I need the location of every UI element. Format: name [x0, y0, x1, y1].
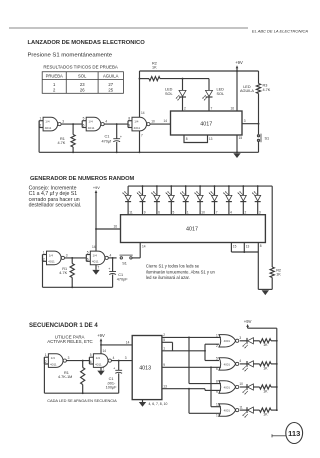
nor gate U7d — [219, 404, 236, 416]
right rail schematic3 — [276, 328, 278, 410]
svg-text:destellador secuencial.: destellador secuencial. — [29, 203, 82, 209]
svg-text:C1: C1 — [105, 134, 110, 138]
svg-text:16: 16 — [231, 107, 235, 111]
svg-text:100µF: 100µF — [106, 385, 118, 389]
wire U5a out to U5b — [67, 360, 90, 362]
wire U1a out to U1b — [61, 123, 82, 125]
wire 4017 pin15 down — [236, 135, 238, 152]
svg-text:6: 6 — [158, 211, 160, 215]
nor gate U7b — [219, 358, 236, 370]
svg-text:2: 2 — [245, 211, 247, 215]
svg-text:1/4: 1/4 — [49, 253, 54, 257]
wire 4017 pins 8-13 strap — [184, 135, 208, 143]
resistor 1K row3 — [260, 385, 272, 389]
resistor R2 — [140, 78, 150, 80]
wire U1c VSS pin7 to bottom rail — [139, 131, 141, 152]
svg-text:1/4: 1/4 — [134, 120, 139, 124]
svg-text:5: 5 — [90, 353, 92, 357]
svg-text:11: 11 — [239, 405, 243, 409]
svg-text:2: 2 — [43, 258, 45, 262]
svg-text:4001: 4001 — [224, 385, 231, 389]
svg-text:AGUILA: AGUILA — [240, 89, 254, 93]
svg-text:26: 26 — [80, 88, 85, 93]
nand gate U5b — [93, 354, 108, 368]
LED D10 — [257, 185, 259, 187]
svg-text:4011: 4011 — [95, 362, 102, 366]
svg-text:8: 8 — [128, 117, 130, 121]
svg-text:4.7K: 4.7K — [263, 88, 271, 92]
wire VDD drop to gate U1c pin14 — [139, 71, 141, 117]
svg-text:LANZADOR DE MONEDAS ELECTRONIC: LANZADOR DE MONEDAS ELECTRONICO — [28, 40, 146, 46]
wire 4013 pin13 run — [162, 388, 205, 390]
svg-text:SOL: SOL — [217, 92, 225, 96]
svg-text:5: 5 — [216, 357, 218, 361]
svg-text:8: 8 — [186, 137, 188, 141]
node S1 top junction — [258, 123, 260, 125]
svg-text:2: 2 — [45, 360, 47, 364]
wire to U7a in2 — [205, 343, 219, 345]
ground schematic2 right — [262, 290, 269, 295]
wire U4a out to U4b — [65, 257, 87, 259]
svg-text:4013: 4013 — [139, 366, 151, 372]
switch S1 schematic2 — [116, 257, 118, 259]
svg-text:27: 27 — [108, 82, 113, 87]
resistor R2 1K s2 — [270, 267, 274, 278]
svg-text:2: 2 — [40, 124, 42, 128]
svg-text:4011: 4011 — [134, 126, 141, 130]
svg-text:4.7K: 4.7K — [59, 271, 67, 275]
svg-text:4001: 4001 — [224, 339, 231, 343]
LED row3 — [246, 384, 248, 390]
svg-text:4.7K-1M: 4.7K-1M — [58, 375, 72, 379]
LED D6 — [199, 185, 201, 187]
svg-text:PRUEBA: PRUEBA — [46, 74, 63, 79]
wire to switch S1 — [258, 124, 260, 135]
wire LED to R row3 — [253, 386, 259, 388]
svg-text:4.7K: 4.7K — [58, 141, 66, 145]
LED row4 — [246, 407, 248, 413]
wire S1 to 4017 pin 14 s2 — [132, 257, 140, 259]
wire LED to R row2 — [253, 363, 259, 365]
svg-text:9: 9 — [144, 211, 146, 215]
LED SOL 2 — [206, 90, 213, 96]
wire 4013 pin5-pin6 step — [162, 341, 173, 343]
wire led rail to R2 s2 — [271, 186, 273, 267]
svg-text:5: 5 — [163, 338, 165, 342]
LED D3 — [156, 185, 158, 187]
svg-text:1: 1 — [40, 117, 42, 121]
wire gate out to LED row1 — [240, 340, 247, 342]
svg-text:1K: 1K — [263, 366, 268, 370]
svg-text:470pF: 470pF — [117, 278, 128, 282]
wire gate out to LED row3 — [240, 386, 247, 388]
wire R to rail row3 — [271, 386, 277, 388]
svg-text:4: 4 — [113, 356, 115, 360]
header rule — [9, 27, 248, 29]
wire R to rail row1 — [271, 340, 277, 342]
right supply run — [248, 327, 277, 329]
wire LED SOL 1 drop — [182, 78, 184, 80]
resistor 1K row1 — [260, 339, 272, 343]
svg-text:4: 4 — [110, 253, 112, 257]
wire +9V to 4017 pin16 — [236, 71, 238, 111]
bus V6 down to U7d in1 — [210, 367, 212, 406]
node R2 junction — [139, 78, 141, 80]
svg-text:15: 15 — [239, 136, 243, 140]
svg-text:4011: 4011 — [50, 362, 57, 366]
led rail schematic2 — [128, 185, 272, 187]
svg-text:14: 14 — [126, 340, 130, 344]
svg-text:2: 2 — [184, 107, 186, 111]
svg-text:113: 113 — [288, 429, 300, 438]
capacitor C1 .001-100uF — [118, 361, 120, 371]
wire R to rail row2 — [271, 363, 277, 365]
svg-text:10: 10 — [239, 382, 243, 386]
svg-text:4001: 4001 — [224, 362, 231, 366]
svg-text:SECUENCIADOR 1 DE 4: SECUENCIADOR 1 DE 4 — [29, 323, 98, 329]
svg-text:4: 4 — [105, 120, 107, 124]
table box — [42, 72, 123, 94]
svg-text:CADA LED SE APAGA EN SECUENCIA: CADA LED SE APAGA EN SECUENCIA — [47, 398, 117, 403]
wire 4017 pin8 down s2 — [257, 243, 259, 290]
svg-text:+: + — [113, 367, 115, 371]
bus V4 down to U7d in2 — [188, 389, 190, 414]
svg-text:+9V: +9V — [93, 186, 100, 190]
svg-text:4011: 4011 — [48, 260, 55, 264]
svg-text:13: 13 — [246, 245, 250, 249]
svg-text:2: 2 — [163, 333, 165, 337]
ic 4017 U3 — [121, 215, 266, 243]
svg-text:Presione S1 momentáneamente: Presione S1 momentáneamente — [28, 52, 113, 58]
svg-text:1: 1 — [43, 250, 45, 254]
ground under U5b — [97, 371, 104, 376]
svg-text:+9V: +9V — [244, 319, 252, 324]
wire U5b out to 4013 — [111, 360, 132, 362]
svg-text:3: 3 — [239, 336, 241, 340]
svg-text:1K: 1K — [263, 343, 268, 347]
svg-text:1K: 1K — [152, 66, 157, 70]
svg-text:4001: 4001 — [224, 409, 231, 413]
capacitor C1 470pF s2 — [112, 258, 114, 272]
svg-text:1: 1 — [216, 333, 218, 337]
node R1 tap s3 — [82, 360, 84, 362]
resistor 1K row2 — [260, 362, 272, 366]
capacitor C1 470uf — [116, 124, 118, 139]
svg-text:3: 3 — [62, 120, 64, 124]
svg-text:13: 13 — [209, 137, 213, 141]
wire U1c out to 4017 pin 14 — [150, 123, 171, 125]
svg-text:1/4: 1/4 — [51, 356, 56, 360]
ic 4013 U6 — [132, 336, 162, 400]
wire R to rail row4 — [271, 409, 277, 411]
svg-text:12: 12 — [216, 403, 220, 407]
nand gate U4a — [47, 251, 62, 265]
svg-text:1K: 1K — [263, 389, 268, 393]
svg-text:led se iluminará al azar.: led se iluminará al azar. — [146, 275, 190, 280]
LED D2 — [142, 185, 144, 187]
svg-text:AGUILA: AGUILA — [103, 74, 119, 79]
svg-text:S1: S1 — [122, 261, 127, 265]
svg-text:15: 15 — [233, 245, 237, 249]
wire 4017 pin3 to S1 node — [242, 123, 259, 125]
nand gate U5a — [48, 354, 63, 368]
svg-text:S1: S1 — [265, 136, 270, 140]
LED SOL 1 — [179, 90, 186, 96]
wire ground run s2 — [258, 288, 272, 290]
LED D4 — [170, 185, 172, 187]
svg-text:GENERADOR DE NUMEROS RANDOM: GENERADOR DE NUMEROS RANDOM — [30, 176, 135, 182]
node C1 tap s3 — [118, 360, 120, 362]
svg-text:7: 7 — [216, 211, 218, 215]
ic 4017 U2 — [171, 111, 243, 135]
svg-text:+9V: +9V — [235, 60, 243, 65]
svg-text:10: 10 — [201, 211, 205, 215]
svg-text:6: 6 — [87, 258, 89, 262]
svg-text:9: 9 — [128, 124, 130, 128]
svg-text:16: 16 — [114, 224, 118, 228]
svg-text:3: 3 — [66, 253, 68, 257]
bus V1 down to U7c in1 — [188, 337, 190, 383]
svg-text:1/4: 1/4 — [88, 120, 93, 124]
wire gate out to LED row2 — [240, 363, 247, 365]
LED D1 — [127, 186, 129, 195]
node C1 tap — [116, 123, 118, 125]
svg-text:SOL: SOL — [78, 74, 87, 79]
LED D8 — [228, 185, 230, 187]
svg-text:25: 25 — [108, 88, 113, 93]
footer pointer line — [272, 435, 286, 437]
resistor R1 4.7K s2 — [71, 258, 73, 264]
wire U1b out to U1c — [104, 123, 128, 125]
svg-text:1/4: 1/4 — [93, 253, 98, 257]
svg-text:7: 7 — [141, 134, 143, 138]
LED D5 — [185, 185, 187, 187]
wire U4a feedback — [42, 255, 44, 288]
svg-text:11: 11 — [129, 211, 133, 215]
svg-text:14: 14 — [141, 111, 145, 115]
svg-text:+: + — [108, 267, 110, 271]
wire LED to R row1 — [253, 340, 259, 342]
svg-text:7: 7 — [211, 107, 213, 111]
svg-text:14: 14 — [142, 244, 146, 248]
wire U4b VSS pin7 ground — [95, 265, 97, 270]
svg-text:6: 6 — [90, 360, 92, 364]
svg-text:7: 7 — [98, 266, 100, 270]
svg-text:1: 1 — [45, 353, 47, 357]
svg-text:8: 8 — [260, 244, 262, 248]
svg-text:1/4: 1/4 — [45, 120, 50, 124]
svg-text:EL ABC DE LA ELECTRONICA: EL ABC DE LA ELECTRONICA — [252, 29, 308, 34]
svg-text:3: 3 — [244, 119, 246, 123]
svg-text:4: 4 — [239, 359, 241, 363]
page number circle — [286, 423, 303, 444]
wire right rail R3 branch — [258, 71, 260, 84]
nand gate U1b — [86, 117, 101, 131]
node R1 tap s2 — [71, 257, 73, 259]
svg-text:4: 4 — [230, 211, 232, 215]
nand gate U1c — [132, 117, 147, 131]
top rail schematic1 — [140, 70, 259, 72]
svg-text:470µf: 470µf — [102, 140, 113, 144]
svg-text:4, 6, 7, 8, 10: 4, 6, 7, 8, 10 — [149, 402, 168, 406]
bottom rail schematic2 — [43, 286, 113, 288]
svg-text:13: 13 — [163, 385, 167, 389]
resistor R1 4.7K — [72, 124, 74, 134]
svg-text:4011: 4011 — [88, 126, 95, 130]
LED D9 — [242, 185, 244, 187]
node C1 tap s2 — [112, 257, 114, 259]
resistor 1K row4 — [260, 408, 272, 412]
svg-text:iluminarán tenuemente. Abra S1: iluminarán tenuemente. Abra S1 y un — [146, 269, 216, 274]
ground under U4b — [92, 270, 99, 275]
svg-text:14: 14 — [164, 119, 168, 123]
node R1 tap — [72, 123, 74, 125]
svg-text:4017: 4017 — [186, 227, 198, 233]
svg-text:3: 3 — [259, 211, 261, 215]
svg-text:8: 8 — [216, 380, 218, 384]
wire 4013 ground stem — [142, 400, 144, 402]
svg-text:23: 23 — [80, 82, 85, 87]
svg-text:5: 5 — [87, 250, 89, 254]
wire U5a feedback — [43, 357, 45, 393]
svg-text:Cierre S1 y todos los leds se: Cierre S1 y todos los leds se — [146, 263, 200, 268]
svg-text:14: 14 — [92, 245, 96, 249]
wire gate out to LED row4 — [240, 409, 247, 411]
svg-text:3: 3 — [68, 356, 70, 360]
svg-text:1K: 1K — [263, 413, 268, 417]
svg-text:SOL: SOL — [165, 92, 173, 96]
resistor R1 4.7K-1M — [82, 361, 84, 368]
svg-text:RESULTADOS TIPICOS DE PRUEBA: RESULTADOS TIPICOS DE PRUEBA — [43, 64, 117, 69]
svg-text:4011: 4011 — [92, 260, 99, 264]
wire 4013 pin1 run — [162, 350, 205, 352]
svg-text:4017: 4017 — [200, 121, 212, 127]
bottom rail schematic1 — [39, 151, 258, 153]
svg-text:ACTIVAR RELES, ETC: ACTIVAR RELES, ETC — [47, 339, 93, 344]
svg-text:10: 10 — [151, 120, 155, 124]
bottom rail schematic3 — [44, 392, 118, 394]
svg-text:1: 1 — [163, 347, 165, 351]
svg-text:5: 5 — [83, 117, 85, 121]
svg-text:C1: C1 — [118, 273, 123, 277]
svg-text:14: 14 — [103, 349, 107, 353]
wire 4013 pin2 to U7a in1 — [162, 336, 221, 338]
svg-text:5: 5 — [173, 211, 175, 215]
wire pin16 stub — [95, 228, 97, 230]
wire S1 to bottom rail — [258, 142, 260, 153]
wire 4017 pins15-13 strap s2 — [230, 243, 232, 253]
svg-text:9: 9 — [163, 363, 165, 367]
nor gate U7a — [219, 335, 236, 347]
svg-text:1: 1 — [187, 211, 189, 215]
ground schematic1 — [233, 153, 240, 158]
wire U4b out — [108, 257, 116, 259]
wire LED SOL 2 drop — [208, 79, 210, 91]
switch S1 — [257, 135, 259, 137]
wire U5b VSS ground — [100, 368, 102, 371]
wire U1a feedback to bottom rail — [38, 121, 40, 153]
wire LED to R row4 — [253, 409, 259, 411]
LED D7 — [214, 185, 216, 187]
svg-text:4011: 4011 — [45, 126, 52, 130]
nor gate U7c — [219, 381, 236, 393]
svg-text:1K: 1K — [276, 273, 281, 277]
svg-text:3: 3 — [125, 356, 127, 360]
resistor R3 4.7K — [256, 84, 260, 94]
nand gate U4b — [90, 251, 105, 265]
wire to U7b in1 — [205, 360, 219, 362]
LED row1 — [246, 338, 248, 344]
LED row2 — [246, 361, 248, 367]
jog to U7c in2 — [204, 389, 206, 391]
ground under 4013 — [139, 402, 146, 407]
svg-text:13: 13 — [216, 413, 220, 417]
wire VDD branch to 4013 pin14 — [100, 344, 102, 346]
nand gate U1a — [43, 117, 58, 131]
svg-text:+: + — [120, 135, 122, 139]
svg-text:+9V: +9V — [97, 333, 105, 338]
wire 4013 pin9 to U7b in2 — [162, 366, 221, 368]
svg-text:1/4: 1/4 — [96, 356, 101, 360]
bus V2 up-down — [204, 344, 206, 360]
svg-text:6: 6 — [83, 124, 85, 128]
